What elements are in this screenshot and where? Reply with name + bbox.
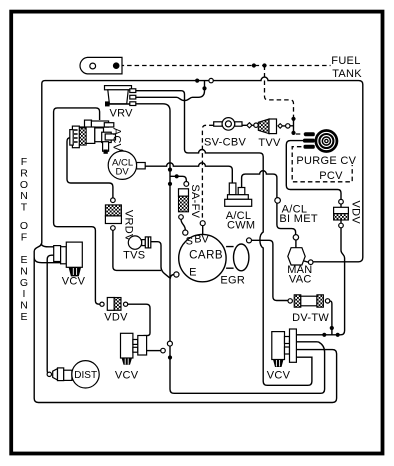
- wire SV-CBV dashed to carb BV: [202, 125, 213, 220]
- wire ACV top pipe loop to VDV left: [54, 108, 100, 304]
- wire VRV port2 to bus (sag under crossing): [136, 81, 205, 101]
- svg-text:TVV: TVV: [258, 137, 281, 149]
- wire fuel vapor dashed drop to purge line: [265, 66, 294, 119]
- wire SA-FV bottom to carb S port: [181, 219, 185, 230]
- valve SA-FV: [184, 182, 189, 187]
- svg-text:PURGE CV: PURGE CV: [296, 155, 356, 167]
- wire VRDV down and over to TVS line: [113, 230, 161, 270]
- wire bus branch into VCV left top: [41, 244, 54, 247]
- svg-text:VAC: VAC: [289, 274, 312, 286]
- valve ACV: [85, 120, 92, 128]
- valve VDV right: [339, 199, 344, 204]
- wire VCV left to DIST: [47, 255, 60, 374]
- svg-text:F: F: [21, 156, 27, 168]
- svg-text:VDV: VDV: [104, 311, 128, 323]
- svg-text:VRV: VRV: [110, 108, 134, 120]
- svg-text:BI MET: BI MET: [279, 213, 317, 225]
- valve DV-TW: [294, 295, 301, 307]
- svg-text:G: G: [20, 277, 28, 289]
- wire A/CL DV right port to A/CL CWM left prong: [145, 163, 232, 183]
- distributor DIST: [47, 372, 51, 376]
- sensor A/CL BI MET: [275, 198, 281, 204]
- svg-text:R: R: [20, 167, 28, 179]
- svg-text:T: T: [21, 202, 28, 214]
- wire TVV east stub: [290, 119, 294, 133]
- svg-text:SV-CBV: SV-CBV: [204, 137, 247, 149]
- svg-text:EGR: EGR: [220, 275, 245, 287]
- carburetor CARB: [179, 234, 226, 281]
- wire carb BV stub: [202, 226, 204, 235]
- wire TVS to manifold: [151, 242, 170, 278]
- svg-text:TVS: TVS: [123, 250, 145, 262]
- junction dots: [195, 79, 199, 83]
- wire purge CV prong2 to VDV right top: [286, 141, 341, 200]
- svg-text:F: F: [21, 232, 27, 244]
- wire VCV middle side port: [147, 350, 161, 352]
- purge control valve PURGE CV: [304, 132, 315, 136]
- svg-text:VCV: VCV: [62, 276, 86, 288]
- svg-text:N: N: [20, 265, 28, 277]
- svg-text:I: I: [23, 288, 26, 300]
- valve A/CL DV: [119, 150, 123, 154]
- svg-text:N: N: [20, 300, 28, 312]
- wire ACV flange west and down to VRDV: [67, 138, 113, 198]
- valve MAN VAC: [288, 248, 305, 265]
- svg-text:DV: DV: [116, 167, 130, 178]
- switch TVS: [128, 236, 141, 249]
- wire fuel tank dashed line: [120, 65, 331, 67]
- wire EGR top port to DV-TW left: [252, 240, 288, 300]
- wire main vacuum bus loop (MAN VAC to top bus, down left side, bottom, to VCV pipe3): [34, 77, 363, 402]
- svg-text:CARB: CARB: [189, 250, 223, 262]
- valve VCV left: [54, 246, 61, 262]
- wire MAN VAC side stub: [304, 261, 309, 262]
- valve TVV: [242, 124, 286, 127]
- PCV dashed box: [292, 147, 352, 182]
- svg-text:FUEL: FUEL: [331, 55, 360, 67]
- svg-text:E: E: [189, 266, 196, 278]
- svg-text:O: O: [20, 220, 28, 232]
- svg-text:ACV: ACV: [110, 128, 122, 152]
- svg-text:DV-TW: DV-TW: [292, 312, 329, 324]
- svg-text:O: O: [20, 179, 28, 191]
- svg-text:E: E: [20, 254, 27, 266]
- motor A/CL CWM: [229, 183, 236, 195]
- valve VCV right: [272, 332, 285, 360]
- wire DV-TW right port drop: [330, 301, 332, 335]
- wire VDV left to VCV middle top: [128, 304, 150, 335]
- wire A/CL CWM right prong to A/CL BI MET to MAN VAC: [242, 171, 277, 198]
- EGR valve: [226, 247, 234, 269]
- valve VDV left: [100, 302, 104, 306]
- valve VCV middle: [121, 333, 133, 358]
- wire VDV right bottom down to VCV pipe1 line (jog at MAN VAC crossing): [297, 228, 345, 335]
- wire bus branch into VCV left body: [34, 258, 66, 263]
- svg-text:VDV: VDV: [349, 201, 361, 225]
- valve VRV: [105, 86, 132, 90]
- valve VRDV: [111, 198, 116, 203]
- wire VRV port1 to EGR column to VCV pipe4: [136, 91, 312, 386]
- svg-text:VCV: VCV: [115, 369, 139, 381]
- wire SA-FV branch from manifold: [170, 176, 186, 181]
- svg-text:VCV: VCV: [267, 369, 291, 381]
- wire carb E port to manifold: [170, 275, 174, 279]
- valve SV-CBV: [214, 122, 222, 126]
- svg-text:CWM: CWM: [227, 220, 255, 232]
- svg-text:S: S: [186, 236, 193, 248]
- wire VRV port3 manifold down to bottom box and VCV pipe2: [136, 104, 325, 394]
- svg-text:E: E: [20, 311, 27, 323]
- svg-text:TANK: TANK: [332, 68, 362, 80]
- svg-text:BV: BV: [194, 233, 209, 245]
- fuel tank sender unit: [80, 57, 122, 74]
- svg-text:PCV: PCV: [319, 170, 343, 182]
- wire dashed purge CV prong1: [296, 133, 304, 135]
- svg-text:DIST: DIST: [74, 370, 97, 381]
- label FRONT OF ENGINE: [20, 156, 28, 323]
- svg-text:N: N: [20, 190, 28, 202]
- svg-text:SA-FV: SA-FV: [189, 184, 201, 218]
